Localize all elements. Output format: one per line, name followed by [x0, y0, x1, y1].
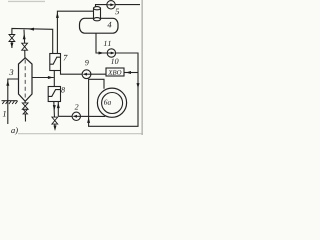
label a) [11, 127, 18, 135]
column 3 dashed centerline [24, 60, 26, 100]
scan smudge top edge [8, 1, 45, 2]
deaerator head [94, 7, 101, 21]
column 3 (degasser vessel) [19, 58, 33, 102]
arrow down on left drain [10, 43, 13, 49]
wire well line 1 to column 3 [8, 79, 19, 124]
valve upper on column 3 drain [22, 103, 28, 109]
valve on HX8 drain [52, 117, 58, 124]
wire HX8 bottom drain [54, 102, 55, 128]
XBO box 10 (chemical water treatment) [106, 68, 124, 76]
arrow up on riser to deaerator head [56, 12, 59, 18]
wire vent from column 3 top [23, 30, 26, 58]
scan line right edge [142, 0, 143, 135]
arrow right on pump 11 suction [99, 52, 105, 55]
arrow left on blowoff header [29, 28, 35, 31]
label 6a [104, 100, 111, 105]
wire blowoff header to HX7 top-left [12, 28, 53, 53]
arrow up on return riser at pump 2 line [87, 117, 90, 123]
valve lower on column 3 drain [23, 109, 27, 114]
valve on vent line [22, 43, 28, 50]
label 7 [64, 55, 68, 61]
pump 2 [72, 112, 80, 120]
arrow up into HX8 bottom [57, 103, 60, 109]
valve on left drain [9, 35, 15, 42]
wire pump 11 discharge, right vertical, bottom return, riser to tank 6a [89, 53, 138, 126]
label 10 [111, 59, 119, 64]
label 11 [104, 41, 111, 46]
wire HX7 bottom-right to pump 9 and XBO box [61, 71, 107, 75]
tank 6a inner circle [102, 93, 123, 114]
label 1 [3, 111, 6, 117]
label 2 [75, 104, 79, 109]
arrow down on right vertical [137, 83, 140, 89]
heat exchanger 8 [48, 87, 60, 102]
arrow up on well line [6, 80, 9, 86]
arrow up on vent line [23, 34, 26, 40]
label 5 [115, 9, 119, 15]
label 8 [61, 87, 65, 92]
arrow left into XBO box [126, 71, 132, 74]
label 9 [85, 60, 89, 65]
arrow down on HX8 drain upper [53, 105, 56, 111]
label 3 [9, 69, 13, 75]
pump 5 [107, 1, 115, 9]
wire HX7 bottom to HX8 top [53, 71, 55, 87]
pump 11 [107, 49, 115, 57]
ground symbol on well line [2, 101, 18, 104]
wire column 3 outlet [32, 77, 54, 79]
wire XBO box to right vertical [124, 72, 138, 74]
heat exchanger 7 [50, 54, 61, 71]
scan line bottom edge [18, 132, 143, 135]
wire column 3 bottom drain [24, 101, 26, 121]
pump 9 [82, 70, 91, 79]
wire riser from HX7 to deaerator head [57, 11, 93, 53]
drum 4 (deaerator tank) [80, 18, 119, 33]
wire top line to pump 5 [96, 5, 141, 8]
wire riser into HX8 bottom [57, 102, 59, 117]
label 4 [107, 22, 111, 28]
arrow down terminal on HX8 drain [54, 126, 57, 132]
label XBO [108, 70, 121, 75]
wire pump 2 suction line [58, 115, 105, 117]
arrow right on column outlet [48, 76, 54, 79]
wire drum 4 bottom nozzle to pump 11 [96, 33, 107, 53]
tank 6a outer circle [97, 88, 126, 117]
